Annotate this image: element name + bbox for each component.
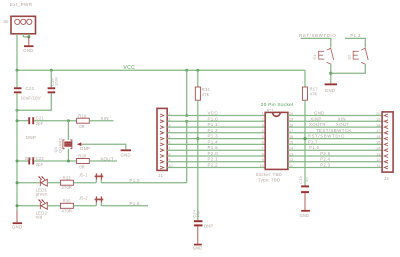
svg-text:C19: C19 [298,176,303,184]
svg-text:C22: C22 [36,156,45,161]
svg-text:P1.2: P1.2 [208,128,219,133]
LED LED1 (green) [36,176,48,197]
IC1 right pin numbers 20-11 [289,112,293,168]
svg-text:R33: R33 [63,175,72,180]
wire J1 pin 9 to IC pin 9 (P2.1) [167,161,265,163]
svg-text:20: 20 [376,112,380,116]
wire S1 bottom to ground node [330,64,332,83]
svg-text:GND: GND [12,225,22,230]
wire jumper pin stub right [100,180,102,183]
wire jumper pin stub left [95,203,97,206]
wire R33 to jumper J5-1 [73,182,96,184]
capacitor C23 [14,86,41,100]
wire crystal case to GND [81,144,126,149]
svg-text:5: 5 [262,135,264,139]
ground GND (crystal case) [121,149,132,157]
svg-text:20 Pin Socket: 20 Pin Socket [261,102,294,107]
wire IC pin 20 to J2 pin 20 (GND) [288,115,382,117]
wire VCC to C18 [50,70,52,87]
svg-text:2: 2 [262,118,264,122]
wire IC pin 19 to J2 pin 19 (XINP) [288,120,382,122]
node right net labels [308,111,352,168]
svg-text:GND: GND [300,213,310,218]
crystal Q1 [53,138,72,153]
svg-text:P2.4: P2.4 [320,157,330,162]
svg-text:P2.5: P2.5 [320,151,330,156]
resistor R19 [77,113,90,128]
wire jumper pin stub left [95,180,97,183]
ground GND (C19) [300,193,310,218]
wire VCC rail [17,69,305,71]
svg-text:VCC: VCC [208,111,219,116]
wire J1 pin 10 to IC pin 10 (P2.2) [167,167,265,169]
wire ground to LED2 [17,205,40,207]
svg-text:R35: R35 [63,199,72,204]
svg-text:J5-1: J5-1 [79,172,88,177]
svg-text:P2.2: P2.2 [208,163,219,168]
resistor R35 [60,199,73,214]
svg-text:Ext_PWR: Ext_PWR [10,2,33,7]
svg-text:1: 1 [262,112,264,116]
svg-text:P1.3: P1.3 [350,33,360,38]
wire R19 to XIN stub [89,120,113,122]
connector J6 [3,16,35,34]
svg-text:J5-2: J5-2 [79,196,88,201]
resistor R17 [302,87,318,101]
svg-text:2pF: 2pF [36,121,44,126]
junction ground line / C18 [16,109,19,112]
svg-text:C21: C21 [36,115,45,120]
svg-text:15: 15 [376,141,380,145]
switch S1 [312,48,334,64]
svg-text:1n: 1n [304,177,309,182]
svg-text:R19: R19 [78,113,87,118]
svg-text:12: 12 [376,158,380,162]
wire IC pin 16 to J2 pin 16 (RST/SBWTDIO) [288,138,382,140]
capacitor C24 (DNP) [191,209,213,228]
svg-text:2pF: 2pF [36,162,44,167]
node left net labels [208,111,219,168]
wire IC pin 13 to J2 pin 13 (P2.5) [288,155,382,157]
svg-text:DNP: DNP [26,135,36,140]
svg-text:DNP: DNP [80,146,90,151]
resistor R20 [77,154,90,170]
svg-text:XOUT: XOUT [336,122,349,127]
svg-text:RST/SBWTDIO: RST/SBWTDIO [308,134,345,139]
svg-text:9: 9 [262,158,264,162]
wire IC pin 15 to J2 pin 15 (P1.7) [288,143,382,145]
capacitor C18 [48,77,59,94]
svg-text:P2.3: P2.3 [320,163,330,168]
wire crystal to XOUT row [67,149,69,161]
wire GND to C22 [17,160,28,162]
wire C18 to ground line [17,93,51,110]
svg-text:270R: 270R [62,185,73,190]
svg-text:10: 10 [260,164,264,168]
svg-text:S2: S2 [347,54,352,60]
svg-text:13: 13 [376,152,380,156]
svg-text:QUARZ: QUARZ [58,138,63,153]
wire J5-1 to P1.0 riser [101,182,186,184]
svg-text:TEST/SBWTCK: TEST/SBWTCK [316,128,352,133]
junction crystal top [67,119,70,122]
wire J1 pin 1 to IC pin 1 (VCC) [167,115,265,117]
wire R34 to P1.3 row and C24 [197,100,199,220]
junction ground/LED2 row [16,204,19,207]
wire ground to LED1 [17,182,40,184]
wire J1 pin 4 to IC pin 4 (P1.2) [167,132,265,134]
ground GND (C24) [193,226,203,250]
wire LED1 to R33 [47,182,60,184]
junction VCC/IC drop [185,69,188,72]
ground GND (J6) [23,37,33,53]
svg-text:XIN: XIN [100,116,108,121]
svg-text:DNP: DNP [204,224,213,229]
svg-text:10p: 10p [195,211,200,218]
wire J1 pin 2 to IC pin 2 (P1.0) [167,120,265,122]
svg-text:XOUT: XOUT [100,157,114,162]
wire J1 pin 7 to IC pin 7 (P1.5) [167,149,265,151]
svg-text:P1.6: P1.6 [309,145,319,150]
wire J1 pin 8 to IC pin 8 (P2.0) [167,155,265,157]
wire S1 stub [301,38,331,47]
wire R20 to XOUT stub [89,160,117,162]
svg-text:18: 18 [376,123,380,127]
svg-text:red: red [36,215,43,220]
resistor R34 [195,87,210,100]
wire VCC rail corner to R17 [304,70,306,87]
wire R35 to jumper J5-2 [73,205,96,207]
wire R17 to RST row and C19 [304,100,306,185]
junction ground/LED1 row [16,181,19,184]
svg-text:P1.0: P1.0 [208,116,219,121]
wire IC pin 11 to J2 pin 11 (P2.3) [288,167,382,169]
LED LED2 (red) [36,199,48,219]
wire S2 stub [345,38,365,47]
svg-text:P1.3: P1.3 [208,134,219,139]
svg-text:47K: 47K [310,91,318,96]
wire C22 to R20 [34,160,77,162]
junction VCC/J6 [16,69,19,72]
wire GND to C21 [17,120,28,122]
wire VCC to C23 [16,70,18,87]
wire J5-2 to P1.6 stub [101,205,148,207]
wire J1 pin 6 to IC pin 6 (P1.4) [167,143,265,145]
svg-text:10uF/10V: 10uF/10V [21,96,41,101]
junction RST/SBWTDIO row [303,137,306,140]
switch S2 [347,48,369,64]
wire IC pin 17 to J2 pin 17 (TEST/SBWTCK) [288,132,382,134]
wire J1 pin 3 to IC pin 3 (P1.1) [167,126,265,128]
wire jumper pin stub right [100,203,102,206]
junction P1.0 row [185,120,188,123]
capacitor C19 [298,176,309,193]
svg-text:GND: GND [193,246,203,251]
wire J1 pin 5 to IC pin 5 (P1.3) [167,138,265,140]
ground GND (bottom left) [12,211,22,230]
junction VCC row [185,114,188,117]
junction switches ground node [329,72,332,75]
svg-text:C23: C23 [25,86,34,91]
wire IC pin 14 to J2 pin 14 (P1.6) [288,149,382,151]
svg-text:14: 14 [376,147,380,151]
wire ground line [16,93,18,210]
svg-text:XINP: XINP [310,116,321,121]
junction ground/XOUT row [16,160,19,163]
svg-text:100n: 100n [53,77,58,86]
svg-text:J2: J2 [384,176,389,181]
svg-text:green: green [36,192,48,197]
svg-text:P1.4: P1.4 [208,139,219,144]
svg-text:11: 11 [376,164,380,168]
ground GND (switches) [325,83,337,92]
junction VCC/C18 [50,69,53,72]
svg-text:GND: GND [314,111,325,116]
resistor R33 [60,175,73,190]
svg-text:IC1: IC1 [267,108,275,113]
svg-text:RST/SBWTDIO: RST/SBWTDIO [299,33,336,38]
svg-text:GND: GND [121,153,131,158]
junction VCC/R34 [196,69,199,72]
wire C21 to R19 [34,120,77,122]
svg-text:P1.1: P1.1 [208,122,219,127]
junction ground/XIN row [16,119,19,122]
svg-text:0R: 0R [79,164,85,169]
svg-text:P2.0: P2.0 [208,151,219,156]
jumper J5-1 [79,172,103,179]
svg-text:J1: J1 [158,173,163,178]
svg-text:S1: S1 [312,54,317,60]
svg-text:8: 8 [262,152,264,156]
wire VCC rail to R34 [197,70,199,87]
wire IC pin 18 to J2 pin 18 (XOUTR) [288,126,382,128]
svg-text:6: 6 [262,141,264,145]
wire LED2 to R35 [47,205,60,207]
svg-text:DNP: DNP [25,156,35,161]
svg-text:GND: GND [325,88,335,93]
svg-text:4: 4 [262,129,264,133]
capacitor C22 [25,156,44,167]
svg-text:Socket: TBD: Socket: TBD [256,172,282,177]
junction J6 ground node [27,35,30,38]
op-amp/IC socket IC1 (20 pin) [265,108,288,169]
svg-text:7: 7 [262,147,264,151]
wire J6 pin2-pin3 join [23,36,29,38]
crystal case arrow (DNP) [77,142,90,151]
capacitor C21 [26,115,44,139]
wire XIN row to crystal [67,121,69,140]
svg-text:P1.7: P1.7 [308,139,318,144]
svg-text:P2.1: P2.1 [208,157,219,162]
svg-text:R20: R20 [78,154,87,159]
wire ground node to S2 bottom [331,64,366,73]
svg-text:19: 19 [376,118,380,122]
svg-text:16: 16 [376,135,380,139]
junction crystal bottom [67,160,70,163]
connector J1 [157,108,167,177]
junction P1.3 row [196,137,199,140]
svg-text:47k: 47k [202,92,210,97]
svg-text:P1.0: P1.0 [129,178,140,183]
svg-text:470R: 470R [62,208,73,213]
jumper J5-2 [79,196,103,203]
svg-text:GND: GND [23,48,33,53]
svg-text:Type: TBD: Type: TBD [258,178,280,183]
svg-text:17: 17 [376,129,380,133]
svg-text:3: 3 [262,123,264,127]
svg-text:XIN: XIN [338,116,346,121]
svg-text:0R: 0R [79,124,85,129]
svg-text:P1.5: P1.5 [208,145,219,150]
wire J6 pin1 to VCC rail [16,34,18,70]
J1 pin numbers 1-10 [168,112,172,168]
svg-text:J6: J6 [3,19,8,24]
svg-text:XOUTR: XOUTR [309,122,326,127]
svg-text:VCC: VCC [123,65,135,71]
J2 pin numbers 20-11 [376,112,380,168]
wire IC pin 12 to J2 pin 12 (P2.4) [288,161,382,163]
wire P1.0 riser [186,121,188,182]
wire J6 pin2 stub [22,34,24,37]
connector J2 [382,112,393,181]
wire VCC rail to IC pin1 row [186,70,188,115]
wire J6 pin3 stub [28,34,30,37]
svg-text:P1.6: P1.6 [129,201,140,206]
IC1 left pin numbers 1-10 [260,112,264,168]
